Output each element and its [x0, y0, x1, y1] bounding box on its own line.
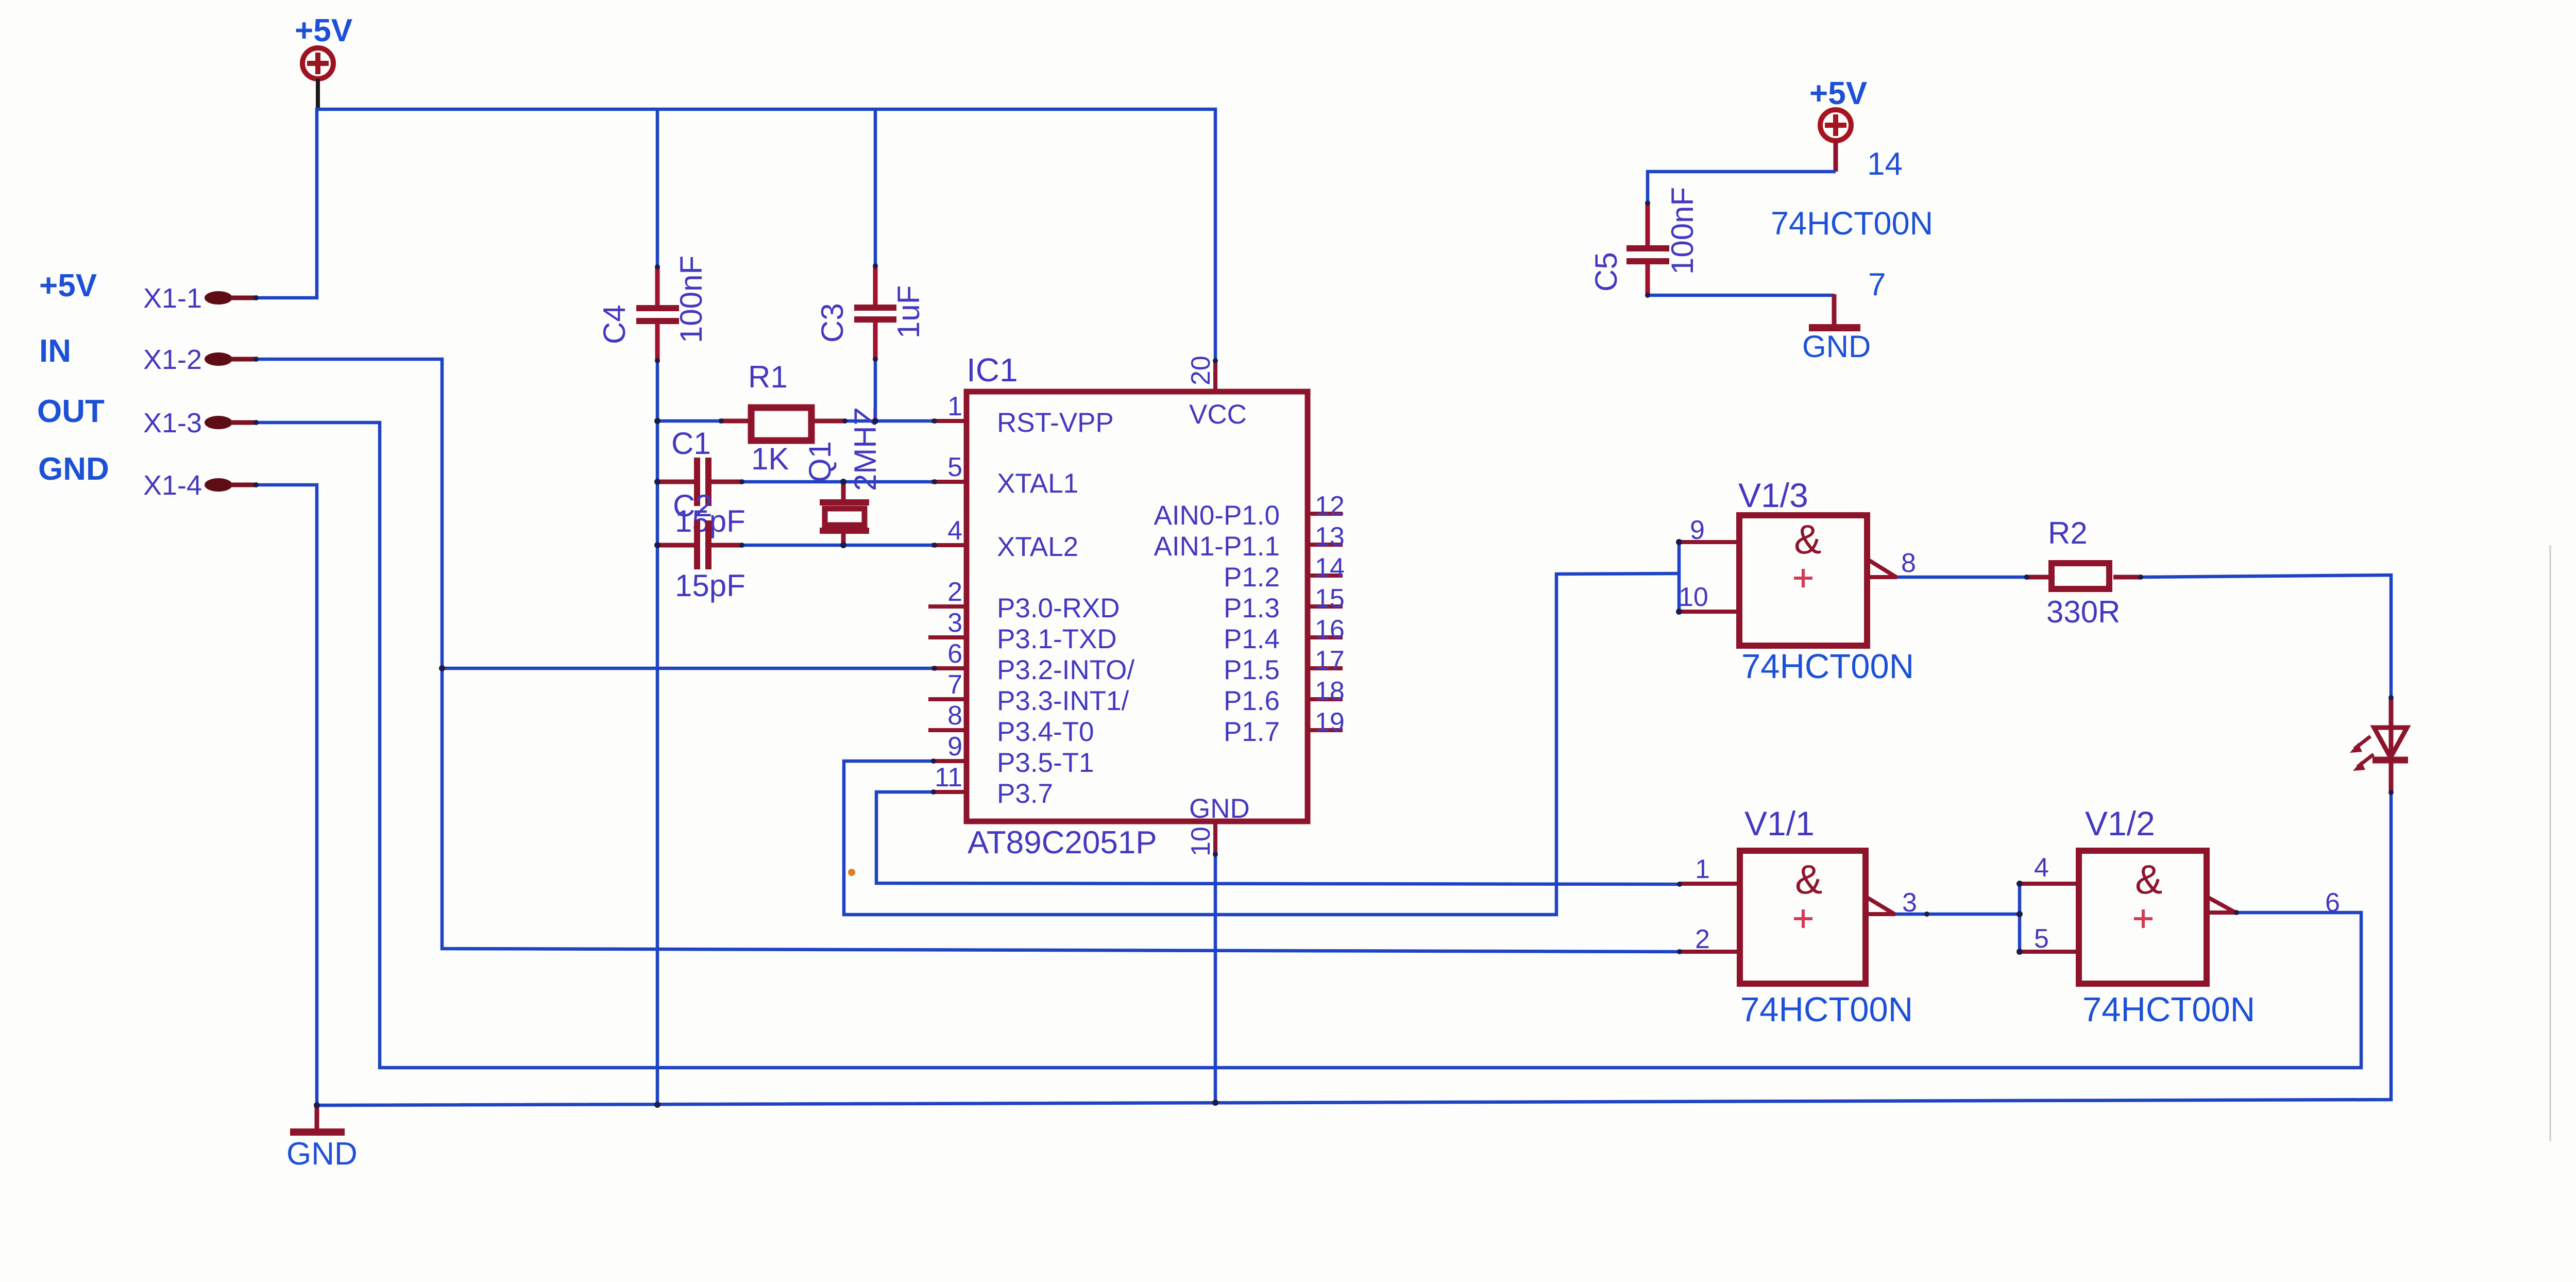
wire +5V rail: X1-1 up to rail, across to IC pin 20 — [256, 109, 1215, 361]
pin 10 GND stub — [1186, 794, 1250, 856]
svg-text:IN: IN — [39, 333, 71, 369]
svg-text:16: 16 — [1315, 615, 1345, 645]
capacitor C4 — [597, 256, 708, 362]
svg-text:20: 20 — [1186, 356, 1216, 385]
svg-text:9: 9 — [1690, 515, 1705, 545]
wire V1/1 output to V1/2 input tie — [1894, 913, 2020, 916]
svg-text:74HCT00N: 74HCT00N — [1741, 647, 1914, 686]
svg-text:P3.1-TXD: P3.1-TXD — [997, 624, 1117, 654]
svg-text:V1/1: V1/1 — [1744, 804, 1815, 842]
svg-text:&: & — [1794, 516, 1821, 562]
wire pin14 rail to C5 — [1648, 172, 1836, 203]
svg-text:74HCT00N: 74HCT00N — [1740, 990, 1913, 1029]
svg-text:1: 1 — [947, 392, 962, 421]
IC U1 AT89C2051P body — [967, 392, 1308, 821]
svg-text:100nF: 100nF — [674, 256, 708, 343]
svg-text:5: 5 — [2034, 924, 2049, 954]
pin 8 P3.4 stub — [928, 701, 1094, 747]
svg-text:74HCT00N: 74HCT00N — [2082, 990, 2255, 1029]
svg-text:12: 12 — [1315, 491, 1345, 521]
resistor R2 — [2025, 516, 2142, 629]
capacitor C1 — [657, 426, 745, 538]
pin 18 P1.6 stub — [1224, 677, 1345, 716]
svg-text:V1/3: V1/3 — [1738, 476, 1808, 514]
svg-text:R1: R1 — [748, 360, 788, 394]
wire C4 top lead from rail — [656, 109, 659, 267]
wire C3 top lead from rail — [874, 109, 877, 266]
pin 19 P1.7 stub — [1224, 707, 1345, 747]
NAND gate V1/1 — [1679, 804, 1917, 1029]
svg-text:X1-1: X1-1 — [143, 283, 202, 314]
pin 16 P1.4 stub — [1224, 615, 1345, 654]
NAND gate V1/2 — [2020, 804, 2340, 1029]
svg-text:6: 6 — [947, 639, 962, 669]
scanner artifact: orange speck — [848, 869, 855, 876]
svg-text:AT89C2051P: AT89C2051P — [968, 825, 1157, 861]
svg-text:5: 5 — [947, 452, 962, 482]
svg-text:C3: C3 — [815, 303, 850, 343]
svg-text:+5V: +5V — [295, 13, 352, 48]
pin 20 VCC stub — [1186, 356, 1247, 430]
svg-text:AIN1-P1.1: AIN1-P1.1 — [1154, 531, 1280, 562]
svg-text:17: 17 — [1315, 646, 1345, 676]
svg-text:3: 3 — [947, 608, 962, 638]
pin 3 P3.1 stub — [928, 608, 1117, 654]
svg-text:4: 4 — [2034, 853, 2049, 883]
svg-text:10: 10 — [1679, 582, 1708, 612]
svg-text:+5V: +5V — [1809, 76, 1867, 111]
svg-text:AIN0-P1.0: AIN0-P1.0 — [1154, 500, 1280, 531]
svg-text:X1-3: X1-3 — [143, 408, 202, 438]
svg-text:P3.5-T1: P3.5-T1 — [997, 748, 1094, 778]
pin 1 RST-VPP stub — [931, 392, 1114, 438]
svg-text:1: 1 — [1695, 854, 1710, 884]
svg-text:IC1: IC1 — [967, 351, 1018, 389]
wire +5V stub to pin 14 corner — [1834, 141, 1838, 172]
svg-text:P1.3: P1.3 — [1224, 593, 1280, 623]
ground symbol top-right — [1802, 294, 1871, 364]
pin 17 P1.5 stub — [1224, 646, 1345, 685]
svg-text:8: 8 — [947, 701, 962, 731]
power symbol +5V top-right — [1809, 76, 1867, 141]
svg-text:C1: C1 — [671, 426, 711, 461]
svg-text:1uF: 1uF — [891, 285, 926, 339]
wire C3 bottom to RST node — [874, 358, 877, 421]
LED D1 — [2350, 697, 2408, 794]
wire P3.7 net: pin 11 left, down, right to V1/1 pin 1 — [876, 792, 1680, 884]
connector pad X1-2 — [143, 344, 258, 375]
wire GND branch from IC pin 10 — [1214, 853, 1217, 1103]
svg-text:14: 14 — [1867, 146, 1903, 182]
connector pad X1-3 — [143, 408, 258, 438]
wire IN branch to IC pin 6 — [442, 667, 936, 670]
wire black stub under +5V symbol — [316, 79, 320, 109]
svg-text:P1.6: P1.6 — [1224, 686, 1280, 716]
wire XTAL2 row — [742, 544, 967, 547]
svg-text:XTAL2: XTAL2 — [997, 532, 1078, 562]
svg-text:&: & — [2135, 856, 2162, 902]
svg-text:RST-VPP: RST-VPP — [997, 408, 1114, 438]
svg-text:P1.5: P1.5 — [1224, 655, 1280, 685]
crystal Q1 — [803, 407, 883, 545]
wire V1/2 input tie vertical — [2018, 884, 2022, 952]
svg-text:GND: GND — [1189, 794, 1250, 824]
pin 15 P1.3 stub — [1224, 584, 1345, 623]
svg-text:XTAL1: XTAL1 — [997, 468, 1078, 499]
svg-text:VCC: VCC — [1189, 399, 1247, 430]
wire GND branch from C4 column — [656, 361, 659, 1105]
svg-text:7: 7 — [1868, 267, 1886, 302]
svg-text:X1-4: X1-4 — [143, 470, 202, 501]
svg-text:P1.4: P1.4 — [1224, 624, 1280, 654]
wire V1/3 input tie vertical — [1677, 542, 1681, 612]
wire IN net: X1-2 right, down, to V1/1 pin2 — [256, 359, 1680, 952]
svg-text:P3.7: P3.7 — [997, 779, 1053, 809]
power symbol +5V top-left — [295, 13, 352, 79]
svg-text:9: 9 — [947, 732, 962, 762]
svg-text:2: 2 — [1695, 924, 1710, 954]
wire R2 to LED top corner — [2141, 575, 2391, 698]
svg-text:74HCT00N: 74HCT00N — [1771, 206, 1933, 242]
wire GND net: X1-4 right, down, bottom rail, up to LED cathode — [256, 485, 2391, 1105]
svg-text:R2: R2 — [2048, 516, 2088, 550]
svg-text:V1/2: V1/2 — [2085, 804, 2155, 842]
resistor R1 — [719, 360, 846, 476]
svg-text:2: 2 — [947, 577, 962, 607]
svg-text:4: 4 — [947, 516, 962, 546]
scanner artifact: faint grey vertical line right side — [2550, 545, 2551, 1141]
svg-text:11: 11 — [935, 763, 962, 792]
pin 9 P3.5 stub — [931, 732, 1094, 778]
svg-text:C4: C4 — [597, 305, 632, 344]
wire OUT net: X1-3 right, down, along bottom, up to V1/2 output — [256, 423, 2361, 1068]
svg-text:P3.3-INT1/: P3.3-INT1/ — [997, 686, 1129, 716]
svg-text:&: & — [1795, 856, 1822, 902]
junction node dots — [253, 200, 2394, 1108]
svg-text:C2: C2 — [673, 488, 713, 523]
svg-text:15: 15 — [1315, 584, 1345, 614]
pin 11 P3.7 stub — [931, 763, 1053, 809]
wire XTAL1 row — [742, 480, 967, 484]
pin 6 P3.2 stub — [931, 639, 1134, 685]
NAND gate V1/3 — [1679, 476, 1916, 686]
pin 14 P1.2 stub — [1224, 553, 1345, 593]
capacitor C2 — [657, 488, 745, 603]
wire C5 bottom to pin 7 — [1648, 294, 1834, 297]
pin 7 P3.3 stub — [928, 670, 1129, 716]
connector pad X1-4 — [143, 470, 258, 501]
svg-text:7: 7 — [947, 670, 962, 700]
svg-text:C5: C5 — [1589, 252, 1623, 292]
connector pad X1-1 — [143, 283, 258, 314]
pin 13 AIN1-P1.1 stub — [1154, 522, 1344, 562]
svg-text:P3.4-T0: P3.4-T0 — [997, 717, 1094, 747]
svg-text:OUT: OUT — [37, 394, 105, 429]
svg-text:P1.7: P1.7 — [1224, 717, 1280, 747]
svg-text:13: 13 — [1315, 522, 1345, 552]
svg-text:GND: GND — [1802, 329, 1871, 364]
svg-text:330R: 330R — [2046, 595, 2120, 629]
svg-text:P1.2: P1.2 — [1224, 562, 1280, 593]
pin 2 P3.0 stub — [928, 577, 1120, 623]
svg-text:10: 10 — [1186, 826, 1216, 856]
capacitor C3 — [815, 265, 926, 361]
svg-text:GND: GND — [38, 451, 109, 487]
svg-text:15pF: 15pF — [675, 568, 745, 603]
capacitor C5 — [1589, 187, 1700, 296]
wire P3.5-T1 net: pin 9 left, down, right, up to V1/3 inputs — [844, 573, 1679, 915]
svg-text:Q1: Q1 — [803, 441, 837, 482]
svg-text:14: 14 — [1315, 553, 1345, 583]
svg-text:1K: 1K — [751, 442, 789, 476]
wire V1/3 output to R2 — [1896, 576, 2027, 579]
svg-text:+5V: +5V — [39, 268, 97, 303]
svg-text:19: 19 — [1315, 707, 1345, 737]
pin 12 AIN0-P1.0 stub — [1154, 491, 1344, 531]
ground symbol bottom-left — [286, 1104, 358, 1172]
svg-text:GND: GND — [286, 1136, 358, 1172]
svg-text:100nF: 100nF — [1665, 187, 1700, 275]
svg-text:6: 6 — [2325, 888, 2340, 918]
wire RST node row: GND column to R1 to IC pin 1 — [657, 419, 721, 423]
svg-text:P3.2-INTO/: P3.2-INTO/ — [997, 655, 1134, 685]
svg-text:P3.0-RXD: P3.0-RXD — [997, 593, 1120, 623]
svg-text:8: 8 — [1901, 548, 1916, 578]
svg-text:18: 18 — [1315, 677, 1345, 706]
pin 5 XTAL1 stub — [931, 452, 1078, 499]
svg-text:X1-2: X1-2 — [143, 344, 202, 375]
svg-text:3: 3 — [1902, 888, 1917, 918]
pin 4 XTAL2 stub — [931, 516, 1078, 562]
